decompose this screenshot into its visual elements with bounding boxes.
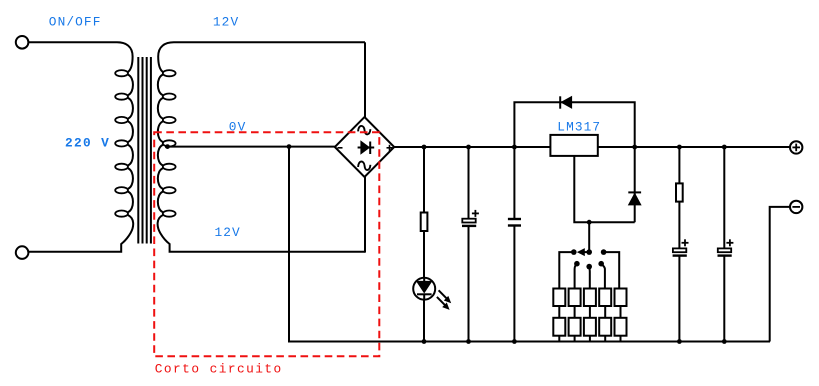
diode D2 (vertical, cathode up)	[628, 147, 641, 222]
input terminal bottom (neutral)	[16, 246, 29, 259]
node: ground junction C3	[677, 339, 682, 344]
svg-text:ON/OFF: ON/OFF	[49, 15, 102, 30]
wire: col2 to ground rail	[574, 336, 576, 342]
wire: LM317 adjust pin	[574, 156, 634, 222]
wire: positive rail	[394, 146, 790, 148]
resistor R7a (row1 col5)	[615, 289, 627, 307]
wire: C2 bottom leg	[513, 226, 515, 342]
resistor R3a (row1 col1)	[553, 289, 565, 307]
transformer T1 secondary winding	[158, 42, 365, 252]
node: rail junction LM317 out / D1 / D2	[632, 145, 637, 150]
capacitor C4 (electrolytic)	[718, 239, 734, 255]
resistor R2	[676, 183, 683, 201]
wire: col3 row link	[589, 306, 591, 318]
resistor R5a (row1 col3)	[584, 289, 596, 307]
wire: 0V center tap to bridge minus	[165, 146, 335, 148]
svg-text:0V: 0V	[229, 120, 247, 135]
wire: R1 leg	[423, 147, 425, 213]
node: junction 0V / ground drop	[287, 144, 292, 149]
capacitor C2	[508, 219, 521, 226]
wire: C4 top leg	[723, 147, 725, 248]
transformer T1 primary winding	[28, 42, 133, 252]
svg-text:LM317: LM317	[557, 119, 601, 134]
wire: col1 to ground rail	[558, 336, 560, 342]
node: 0V tap junction	[165, 144, 170, 149]
resistor R1	[421, 213, 428, 232]
wire: col4 row link	[604, 306, 606, 318]
resistor R6b (row2 col4)	[599, 318, 611, 336]
output terminal negative	[790, 201, 802, 213]
wire: C4 bottom leg	[723, 256, 725, 342]
wire: C2 top leg	[513, 147, 515, 219]
wire: R1 to LED	[423, 231, 425, 278]
rotary switch SW1	[571, 248, 606, 269]
input terminal top (line)	[16, 36, 29, 49]
svg-text:220 V: 220 V	[65, 136, 110, 151]
svg-text:Corto circuito: Corto circuito	[155, 362, 283, 377]
wire: col2 row link	[574, 306, 576, 318]
node: ground junction C1	[466, 339, 471, 344]
node: rail junction R1	[422, 145, 427, 150]
svg-text:12V: 12V	[213, 15, 239, 30]
wire: switch contact 3 to column 3	[588, 267, 591, 289]
capacitor C3 (electrolytic)	[673, 239, 689, 255]
wire: bypass loop over LM317	[514, 102, 634, 147]
svg-text:12V: 12V	[215, 225, 241, 240]
wire: LED to ground rail	[423, 300, 425, 342]
diode D1 (bypass, pointing left)	[560, 96, 571, 108]
wire: switch contact 4 to column 4	[601, 264, 605, 289]
wire: col3 to ground rail	[589, 336, 591, 342]
transformer T1 core	[137, 57, 139, 244]
node: ground junction C2	[512, 339, 517, 344]
wire: C3 bottom leg	[678, 256, 680, 342]
wire: switch common from adjust	[588, 222, 590, 252]
wire: switch contact 2 to column 2	[575, 264, 577, 289]
LED D3	[413, 278, 451, 310]
node: adjust junction to switch	[587, 220, 592, 225]
node: ground junction LED column	[422, 339, 427, 344]
resistor R5b (row2 col3)	[584, 318, 596, 336]
node: rail junction C2 / bypass	[512, 145, 517, 150]
node: rail junction C4	[722, 145, 727, 150]
wire: col5 row link	[620, 306, 622, 318]
wire: negative return	[770, 207, 790, 342]
wire: R2 top leg	[678, 147, 680, 183]
node: ground junction C4	[722, 339, 727, 344]
wire: col1 row link	[558, 306, 560, 318]
node: rail junction C1	[466, 145, 471, 150]
capacitor C1 (electrolytic)	[462, 210, 479, 226]
wire: C1 bottom leg	[468, 226, 470, 342]
wire: switch contact 1 to column 1	[559, 252, 574, 288]
regulator U1 LM317	[550, 135, 597, 156]
wire: col5 to ground rail	[620, 336, 622, 342]
resistor R7b (row2 col5)	[615, 318, 627, 336]
resistor R4a (row1 col2)	[569, 289, 581, 307]
short-circuit test box (dashed)	[154, 132, 379, 356]
wire: switch contact 5 to column 5	[604, 252, 620, 288]
wire: secondary bottom 12V to bridge bottom	[364, 177, 366, 253]
wire: secondary top 12V to bridge top	[364, 42, 366, 117]
wire: col4 to ground rail	[604, 336, 606, 342]
wire: R2 to C3	[678, 202, 680, 249]
node: rail junction R2	[677, 145, 682, 150]
wire: C1 top leg	[468, 147, 470, 219]
output terminal positive	[790, 141, 802, 153]
wire: ground drop from 0V to bottom rail	[289, 147, 770, 342]
resistor R3b (row2 col1)	[553, 318, 565, 336]
resistor R4b (row2 col2)	[569, 318, 581, 336]
bridge rectifier B1	[335, 117, 394, 177]
resistor R6a (row1 col4)	[599, 289, 611, 307]
